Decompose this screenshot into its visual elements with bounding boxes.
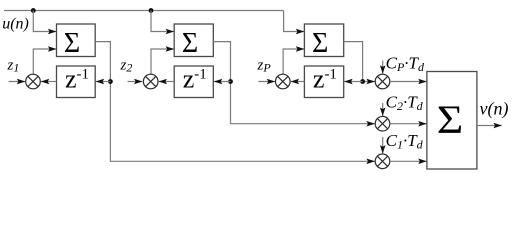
wire: stage3 summer output down and right to CP multiplier [344, 42, 375, 82]
wire: stage2 delay output into multiplier [159, 81, 174, 83]
wire: input bus u(n) top horizontal [4, 10, 284, 12]
wire: stage2 branch into delay input [214, 81, 230, 83]
node: junction dot stage 2 tap [149, 8, 154, 13]
wire: CP multiplier output into big summer [390, 81, 427, 83]
multiplier M1b (C1 Td otimes) [375, 154, 390, 169]
wire: stage3 branch into delay input [345, 81, 363, 83]
svg-text:v(n): v(n) [480, 99, 509, 120]
wire: C1 coefficient vertical arrow [382, 137, 384, 153]
summer U4 (big output sigma box) [427, 72, 477, 170]
wire: stage1 top input into summer [33, 11, 56, 32]
wire: C2 multiplier output into big summer [390, 123, 427, 125]
wire: stage2 summer output down to middle row [213, 42, 374, 124]
svg-text:CP·Td: CP·Td [386, 54, 425, 75]
node: junction dot stage 1 tap [31, 8, 36, 13]
summer U1 (stage1 sigma box) [57, 24, 96, 57]
wire: output v(n) arrow [477, 125, 502, 127]
svg-text:zP: zP [257, 57, 272, 74]
svg-text:C1·Td: C1·Td [386, 131, 424, 152]
wire: z2 coefficient input arrow [128, 81, 143, 83]
wire: stage2 top input into summer [151, 11, 174, 32]
delay block Z1 (stage1 z^-1 box) [57, 66, 96, 98]
svg-text:z2: z2 [120, 57, 133, 74]
wire: zP coefficient input arrow [258, 81, 275, 83]
wire: z1 coefficient input arrow [9, 81, 25, 83]
wire: stage3 delay output into multiplier [291, 81, 305, 83]
wire: stage1 branch into delay input [96, 81, 110, 83]
delay block Z2 (stage2 z^-1 box) [174, 66, 213, 98]
svg-text:C2·Td: C2·Td [386, 92, 424, 113]
wire: stage1 delay output into multiplier [41, 81, 56, 83]
multiplier M2 (stage2 otimes) [143, 74, 158, 89]
wire: stage3 feedback up into summer [283, 49, 304, 74]
wire: stage3 top input into summer [284, 11, 304, 32]
summer U3 (stage3 sigma box) [304, 24, 343, 57]
svg-text:Σ: Σ [312, 28, 328, 59]
wire: stage1 feedback up into summer [33, 49, 56, 74]
multiplier M1 (stage1 otimes) [26, 74, 41, 89]
node: stage1 junction dot [108, 79, 113, 84]
multiplier MP (CP Td otimes) [375, 74, 390, 89]
wire: CP coefficient vertical arrow [382, 61, 384, 74]
svg-text:z1: z1 [7, 57, 20, 74]
wire: C1 multiplier output into big summer [390, 160, 427, 162]
svg-text:Σ: Σ [182, 28, 198, 59]
svg-text:Σ: Σ [64, 28, 80, 59]
multiplier M3 (stage3 otimes) [276, 74, 291, 89]
svg-text:u(n): u(n) [2, 16, 29, 33]
summer U2 (stage2 sigma box) [174, 24, 213, 57]
wire: stage2 feedback up into summer [151, 49, 174, 74]
node: stage2 junction dot [228, 79, 233, 84]
wire: stage1 summer output down to bottom row [95, 42, 374, 162]
node: stage3 junction dot [360, 79, 365, 84]
svg-text:Σ: Σ [437, 98, 464, 142]
wire: C2 coefficient vertical arrow [382, 103, 384, 116]
delay block Z3 (stage3 z^-1 box) [304, 66, 343, 98]
multiplier M2b (C2 Td otimes) [375, 116, 390, 131]
